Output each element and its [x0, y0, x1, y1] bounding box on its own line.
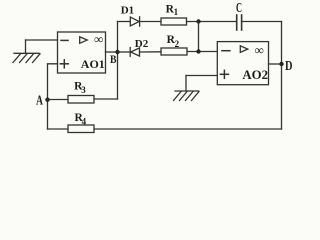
- wire AO1 noninverting input to node A column: [48, 64, 58, 129]
- junction dot R2 row / feedback column: [196, 49, 200, 53]
- wire ground1 to AO1 inverting input: [26, 39, 58, 41]
- svg-text:3: 3: [81, 85, 86, 95]
- wire feedback column between R1 row and R2 row: [198, 22, 200, 52]
- wire R2 to AO2 inverting input: [187, 51, 217, 53]
- wire capacitor C to right rail: [242, 21, 282, 23]
- ground (left, at AO1 inverting input): [13, 40, 40, 63]
- wire R1 to capacitor C (junction at feedback column): [187, 21, 237, 23]
- svg-text:2: 2: [175, 39, 180, 49]
- label R2: [167, 34, 180, 49]
- label R1: [166, 4, 179, 18]
- svg-text:B: B: [110, 52, 117, 66]
- svg-text:∞: ∞: [94, 32, 103, 47]
- wire node B vertical column (D1 branch down to R3 branch): [117, 22, 119, 100]
- resistor R1: [161, 18, 187, 25]
- diode D1: [130, 17, 139, 26]
- resistor R3: [68, 96, 94, 104]
- svg-text:A: A: [36, 93, 43, 108]
- op-amp AO1: [58, 32, 106, 73]
- node B junction dot: [115, 50, 119, 54]
- wire D1 cathode to R1: [140, 21, 161, 23]
- svg-text:∞: ∞: [255, 42, 264, 57]
- svg-text:AO1: AO1: [81, 57, 105, 71]
- label R4: [75, 112, 87, 126]
- wire R4 to right rail (bottom feedback row): [94, 128, 282, 130]
- svg-text:1: 1: [174, 7, 179, 17]
- node A junction dot: [45, 98, 49, 102]
- label R3: [74, 81, 86, 95]
- wire AO2 output to node D: [269, 63, 282, 65]
- svg-text:D2: D2: [135, 38, 149, 50]
- svg-text:D: D: [285, 59, 293, 74]
- svg-text:C: C: [236, 0, 242, 15]
- wire right rail (C row down to bottom feedback row): [281, 22, 283, 130]
- svg-text:4: 4: [82, 116, 87, 126]
- wire node B to diode D2 cathode: [118, 51, 131, 53]
- svg-text:AO2: AO2: [242, 68, 268, 82]
- ground (at AO2 noninverting input): [174, 76, 200, 101]
- op-amp AO2: [217, 42, 268, 85]
- wire node A to R3: [48, 99, 69, 101]
- resistor R2: [161, 48, 187, 55]
- node D junction dot: [279, 62, 283, 66]
- junction dot R1/C and feedback column: [196, 19, 200, 23]
- capacitor C: [237, 15, 242, 30]
- wire AO1 output to node B: [106, 51, 118, 53]
- diode D2: [130, 48, 139, 57]
- wire node A column to R4: [48, 128, 69, 130]
- svg-text:D1: D1: [121, 4, 134, 16]
- wire AO2 noninverting input to ground2: [186, 75, 217, 77]
- wire top branch to diode D1 anode: [118, 21, 131, 23]
- wire R3 to node B column: [94, 98, 118, 100]
- resistor R4: [68, 125, 94, 133]
- wire D2 anode to R2: [140, 51, 162, 53]
